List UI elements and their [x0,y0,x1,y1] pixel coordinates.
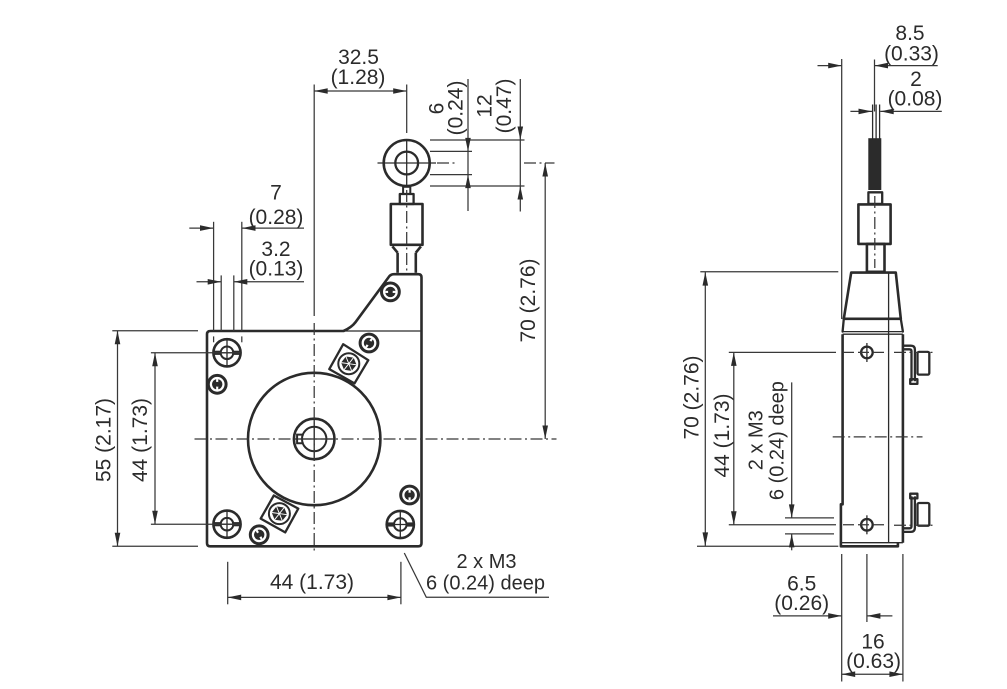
leader 2 x M3 front [404,553,549,597]
mounting screw bottom-left [213,511,240,538]
svg-text:(0.08): (0.08) [888,88,943,111]
svg-text:44 (1.73): 44 (1.73) [129,398,152,482]
plunger cylinder [391,204,423,245]
dim 7 text [249,182,304,229]
dim 3.2 (0.13) [197,275,305,331]
cable fitting side [868,192,882,204]
plunger shoulder [392,246,421,252]
dim 6.5 (0.26) [773,554,903,682]
set screw bottom-left [250,526,268,544]
svg-text:44 (1.73): 44 (1.73) [270,571,354,594]
housing side face edge [888,273,890,542]
hex screw lower-left (tilted) [261,496,299,533]
eyelet crosshair [378,140,437,187]
dim 44 vertical text [129,398,152,482]
mounting screw top-left [213,339,240,366]
side screw hole top [861,343,873,362]
dim 6 (0.24) line [465,79,471,211]
dim 8.5 (0.33) [818,59,938,319]
dim 12 text [474,79,517,134]
plunger nut [400,194,414,204]
dim 32.5 text [331,46,386,89]
plunger neck side [867,244,885,272]
note 2 x M3 front [426,551,545,594]
svg-text:(0.13): (0.13) [249,257,304,280]
dim 16 (0.63) [842,671,903,677]
mounting screw bottom-right [387,511,414,538]
svg-text:(0.33): (0.33) [884,42,939,65]
cable wires [873,105,880,139]
svg-text:2 x M3: 2 x M3 [456,551,516,573]
dim 44 (1.73) horizontal [228,562,401,605]
shaft keyway notch [297,435,304,444]
dim 44 side text [711,393,734,477]
drum vertical centerline [313,85,315,553]
svg-text:2 x M3: 2 x M3 [746,410,768,470]
set screw on slope [382,283,400,301]
housing side top trapezoid [844,273,901,319]
svg-text:(0.47): (0.47) [493,79,516,134]
plunger rod [398,253,416,273]
sensor housing front view outline [207,274,422,546]
svg-text:(0.26): (0.26) [774,592,829,615]
mounting clip top [894,346,934,384]
dim 3.2 text [249,238,304,280]
svg-text:6 (0.24) deep: 6 (0.24) deep [426,572,545,594]
hex screw upper-right (tilted) [329,344,368,383]
set screw left [208,375,226,393]
housing side body [841,334,903,546]
dim 55 text [93,398,116,482]
side horizontal centerline [833,436,923,438]
mounting clip bottom [894,494,934,532]
cable thick [868,138,881,190]
plunger centerline [406,190,408,271]
cable drum circle [248,373,380,505]
svg-text:(0.28): (0.28) [249,206,304,229]
shaft bore circle [302,427,326,451]
dim 44 horizontal text [270,571,354,594]
svg-text:55 (2.17): 55 (2.17) [93,398,116,482]
dim 6.5 text [774,573,829,616]
svg-text:(1.28): (1.28) [331,66,386,89]
drum horizontal centerline [195,438,557,440]
eyelet neck [403,187,410,194]
svg-text:44 (1.73): 44 (1.73) [711,393,734,477]
dim 44 (1.73) vertical [151,353,241,524]
cable eyelet ring [384,140,430,186]
side screw hole bottom [861,515,873,534]
dim 12 (0.47) line [518,79,524,212]
dim 7 (0.28) [189,222,304,342]
svg-text:70 (2.76): 70 (2.76) [680,355,703,439]
dim 55 (2.17) [112,331,198,547]
side vertical centerline [874,196,876,268]
dim 32.5 (1.28) line [314,85,407,134]
note 2 x M3 side [746,381,789,500]
housing side band lines [843,319,903,334]
svg-text:(0.63): (0.63) [846,650,901,673]
dim 2 (0.08) [850,109,941,115]
set screw right [401,486,419,504]
dim 70 (2.76) front line [524,163,555,439]
dim 70 (2.76) side [697,272,838,547]
dim 8.5 text [884,22,939,66]
svg-text:6 (0.24) deep: 6 (0.24) deep [766,381,788,500]
dim 16 text [846,631,901,673]
shaft crosshair [294,418,334,461]
svg-text:7: 7 [270,182,282,205]
dim 6 deep side [785,382,834,550]
set screw upper-right [360,334,378,352]
plunger cylinder side [858,204,890,244]
eyelet extension lines [430,140,525,186]
dim 6 text [426,81,468,136]
svg-text:(0.24): (0.24) [445,81,468,136]
dim 2 text [888,68,943,111]
dim 70 side text [680,355,703,439]
housing top face edge (interior line) [344,330,420,332]
svg-text:70 (2.76): 70 (2.76) [517,258,540,342]
dim 70 front text [517,258,540,342]
dim 44 (1.73) side [729,352,889,524]
shaft hub outer circle [294,419,335,460]
